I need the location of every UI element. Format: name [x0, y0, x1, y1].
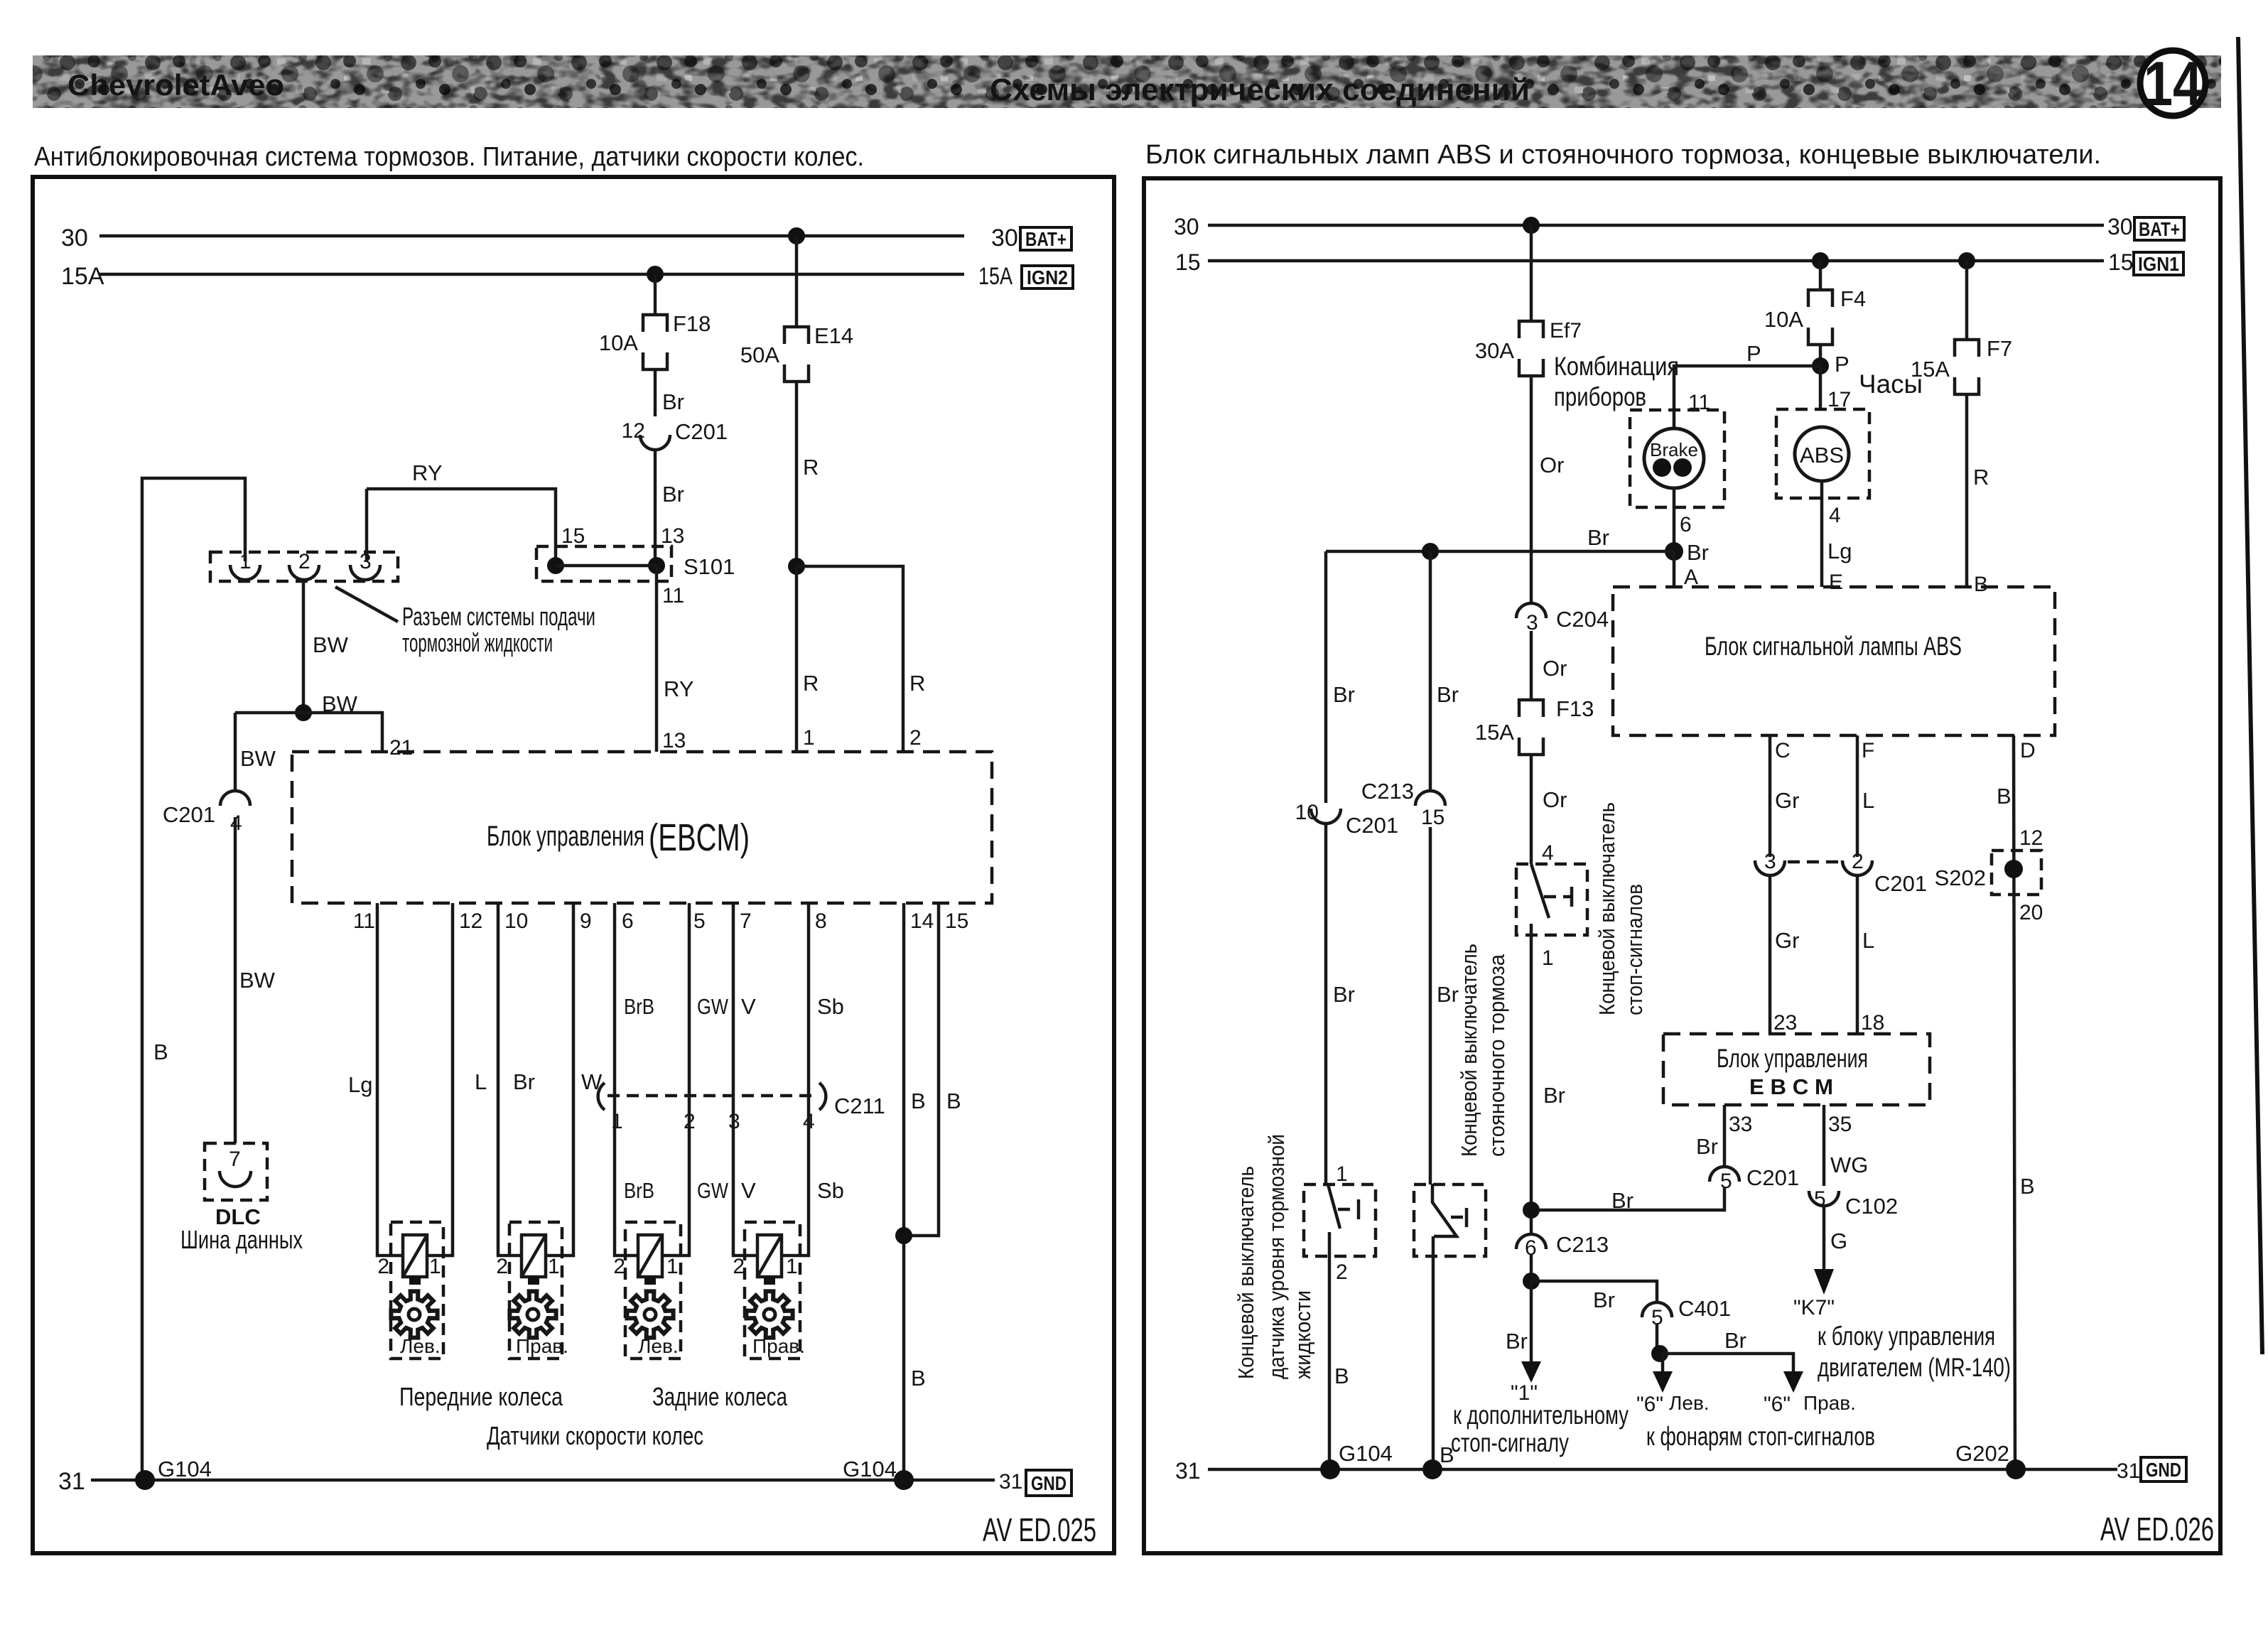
ground node G202 — [2006, 1459, 2026, 1479]
svg-text:Концевой выключатель: Концевой выключатель — [1233, 1166, 1258, 1379]
ground node left B — [1320, 1459, 1340, 1479]
front-left sensor element — [403, 1235, 427, 1285]
wire C201 to S101 — [654, 450, 657, 566]
node S202 — [2004, 860, 2023, 878]
svg-text:Br: Br — [1506, 1329, 1528, 1354]
svg-text:Концевой выключатель: Концевой выключатель — [1457, 944, 1481, 1157]
svg-text:C201: C201 — [1746, 1165, 1799, 1190]
wire clock down — [1820, 481, 1824, 587]
ABS warning lamp — [1795, 427, 1849, 481]
svg-text:BW: BW — [240, 746, 276, 771]
svg-text:Блок управления: Блок управления — [487, 821, 644, 852]
svg-text:12: 12 — [2019, 826, 2043, 850]
svg-text:"6": "6" — [1764, 1393, 1791, 1416]
node on bus 15A — [647, 266, 664, 283]
wire bus15 to fuse F7 — [1965, 261, 1969, 340]
ground node G104 left — [135, 1470, 155, 1490]
svg-text:F13: F13 — [1556, 696, 1594, 721]
wire brake lamp down — [1673, 488, 1676, 551]
parking brake switch contact — [1432, 1184, 1457, 1236]
wire pin9 W to front-right sensor — [546, 903, 573, 1256]
svg-text:14: 14 — [2144, 48, 2202, 119]
svg-text:1: 1 — [429, 1255, 441, 1278]
svg-text:к блоку управления: к блоку управления — [1818, 1322, 1995, 1351]
wire stop switch down to node — [1530, 924, 1533, 1234]
DLC dashed box — [205, 1143, 267, 1200]
svg-text:S101: S101 — [684, 554, 735, 579]
wire bus 15 — [1208, 259, 2104, 263]
svg-text:4: 4 — [1542, 841, 1554, 865]
svg-text:15A: 15A — [1475, 720, 1514, 745]
svg-text:1: 1 — [1336, 1162, 1348, 1186]
fuse F7 — [1955, 340, 1979, 357]
wire F4 down to P node — [1819, 345, 1822, 366]
svg-text:(EBCM): (EBCM) — [649, 816, 750, 859]
svg-text:6: 6 — [1680, 513, 1692, 536]
svg-text:7: 7 — [229, 1148, 241, 1171]
connector 5 C102 — [1809, 1191, 1839, 1206]
svg-text:2: 2 — [298, 550, 310, 573]
wire bus30 to fuse E14 — [795, 236, 799, 327]
svg-text:Передние колеса: Передние колеса — [399, 1382, 563, 1411]
svg-text:2: 2 — [909, 726, 922, 750]
svg-text:R: R — [1973, 465, 1989, 490]
svg-text:Е В С М: Е В С М — [1749, 1074, 1833, 1099]
svg-text:L: L — [1862, 928, 1874, 953]
wire node to ABS block pin A — [1673, 551, 1676, 587]
svg-text:Лев.: Лев. — [1669, 1392, 1710, 1414]
svg-text:1: 1 — [666, 1255, 679, 1278]
splice S101 dashed box — [536, 546, 671, 581]
wire pin11 Lg to front-left sensor — [377, 903, 403, 1256]
svg-text:5: 5 — [693, 909, 706, 933]
svg-text:S202: S202 — [1935, 865, 1986, 890]
svg-text:C401: C401 — [1678, 1296, 1731, 1321]
svg-text:2: 2 — [733, 1255, 745, 1278]
left Br wire from node down to C201-10 — [1324, 551, 1328, 803]
svg-text:11: 11 — [353, 909, 375, 933]
svg-text:21: 21 — [389, 736, 413, 760]
svg-text:WG: WG — [1830, 1152, 1868, 1177]
wire bus 30 — [99, 234, 964, 238]
svg-text:тормозной жидкости: тормозной жидкости — [402, 628, 553, 657]
svg-text:35: 35 — [1828, 1113, 1852, 1136]
wire C201-3 Gr to EBCM 23 — [1768, 875, 1772, 1034]
svg-text:F4: F4 — [1840, 286, 1866, 311]
svg-text:Датчики скорости колес: Датчики скорости колес — [487, 1421, 703, 1450]
connector pin 2 — [289, 565, 319, 580]
wire C211-2 GW to rear-left sensor — [662, 1096, 689, 1256]
svg-text:GND: GND — [1031, 1472, 1066, 1494]
svg-text:30: 30 — [2107, 214, 2133, 239]
svg-text:к дополнительному: к дополнительному — [1453, 1400, 1629, 1430]
svg-text:31: 31 — [2117, 1459, 2140, 1483]
svg-text:23: 23 — [1773, 1011, 1797, 1035]
wire P node to clock — [1819, 366, 1822, 409]
wire C211-1 BrB to rear-left sensor — [615, 1096, 638, 1256]
svg-text:Br: Br — [662, 482, 684, 507]
svg-text:50A: 50A — [740, 342, 779, 367]
svg-text:Br: Br — [1333, 682, 1355, 707]
svg-text:B: B — [1997, 784, 2011, 809]
svg-text:BrB: BrB — [624, 994, 654, 1019]
wire pin10 Br to front-right sensor — [498, 903, 522, 1256]
wire F13 down to stop switch — [1530, 755, 1533, 864]
wire BW left branch down to C201-4 — [234, 713, 237, 790]
node Br mid — [1422, 543, 1439, 560]
svg-text:ChevroletAveo: ChevroletAveo — [67, 68, 284, 102]
svg-text:Прав.: Прав. — [1803, 1392, 1856, 1414]
front-left gear — [391, 1291, 437, 1337]
wire pin8 Sb to C211-4 — [807, 903, 811, 1096]
wire fluid switch down B to ground — [1328, 1232, 1332, 1469]
arrow to right stop lamp — [1783, 1371, 1803, 1393]
label callout line — [335, 587, 398, 622]
svg-text:3: 3 — [1764, 850, 1776, 873]
brake lamp dashed box — [1630, 410, 1724, 507]
svg-text:"6": "6" — [1636, 1393, 1663, 1416]
BAT+ terminal box — [1020, 227, 1071, 250]
rear-left gear — [627, 1291, 673, 1337]
ABS signal lamp block dashed box — [1613, 587, 2055, 735]
svg-text:Br: Br — [1687, 540, 1709, 565]
wire pin1 loop to left side down — [142, 478, 245, 1480]
left panel frame — [33, 177, 1114, 1553]
svg-text:B: B — [1334, 1364, 1349, 1388]
wire R to EBCM pin 1 — [795, 566, 799, 752]
svg-text:Прав.: Прав. — [752, 1335, 805, 1357]
node B join — [895, 1227, 912, 1244]
svg-text:C204: C204 — [1556, 607, 1609, 632]
wire C211-4 Sb to rear-right sensor — [782, 1096, 809, 1256]
svg-text:9: 9 — [580, 909, 592, 933]
svg-text:12: 12 — [459, 909, 482, 933]
GND terminal box — [2141, 1457, 2186, 1481]
svg-text:Концевой выключатель: Концевой выключатель — [1594, 802, 1619, 1015]
wire F7 down R — [1965, 394, 1969, 587]
wire parking switch down B to ground — [1432, 1236, 1435, 1469]
svg-text:D: D — [2020, 739, 2036, 762]
svg-text:Br: Br — [1593, 1287, 1615, 1312]
svg-text:5: 5 — [1720, 1170, 1732, 1193]
node R branch — [788, 558, 805, 575]
svg-text:30A: 30A — [1475, 338, 1514, 363]
wire pin C Gr to C201-3 — [1768, 735, 1772, 857]
rear-right sensor element — [757, 1235, 782, 1285]
svg-text:Br: Br — [1696, 1134, 1718, 1159]
stop signal switch dashed box — [1516, 864, 1587, 935]
svg-text:F18: F18 — [673, 311, 711, 336]
svg-text:Комбинация: Комбинация — [1554, 352, 1679, 381]
wire C213-15 down to parking switch — [1429, 827, 1432, 1184]
svg-text:6: 6 — [1525, 1236, 1537, 1260]
svg-text:B: B — [911, 1366, 926, 1391]
svg-text:AV ED.026: AV ED.026 — [2100, 1511, 2214, 1548]
arrow to additional stop light — [1521, 1361, 1541, 1383]
fuse F4 — [1808, 290, 1832, 307]
wire Ef7 down Or — [1530, 376, 1533, 600]
front-left wheel sensor box — [391, 1222, 443, 1359]
GND terminal box — [1026, 1470, 1071, 1496]
svg-text:B: B — [911, 1089, 926, 1113]
svg-text:4: 4 — [1829, 504, 1841, 527]
connector 6 C213 — [1516, 1234, 1546, 1249]
svg-text:Sb: Sb — [817, 994, 844, 1019]
wire C201-10 down to fluid switch — [1324, 824, 1328, 1184]
svg-text:15: 15 — [561, 524, 585, 548]
brake warning lamp — [1644, 428, 1704, 488]
svg-text:Br: Br — [1543, 1083, 1565, 1108]
svg-text:E: E — [1829, 571, 1843, 594]
svg-text:C211: C211 — [834, 1094, 885, 1118]
svg-text:31: 31 — [1175, 1458, 1201, 1484]
svg-text:15: 15 — [1175, 249, 1201, 275]
svg-text:B: B — [946, 1089, 961, 1113]
svg-text:B: B — [153, 1040, 168, 1064]
svg-text:12: 12 — [622, 419, 645, 443]
svg-text:C201: C201 — [163, 802, 215, 827]
svg-text:G: G — [1830, 1229, 1847, 1253]
svg-text:R: R — [909, 671, 925, 696]
svg-text:7: 7 — [740, 909, 752, 933]
svg-text:L: L — [1862, 788, 1874, 813]
svg-text:15A: 15A — [978, 263, 1012, 290]
right panel frame — [1144, 178, 2220, 1553]
svg-text:Br: Br — [1437, 982, 1459, 1007]
C211 left paren — [598, 1083, 605, 1110]
svg-text:G104: G104 — [1339, 1441, 1393, 1466]
wire C201-4 down to DLC — [234, 817, 237, 1143]
svg-text:C: C — [1775, 739, 1791, 762]
arrow to left stop lamp — [1661, 1354, 1665, 1374]
svg-text:1: 1 — [1542, 946, 1554, 970]
wire bus15 to fuse F4 — [1819, 261, 1822, 290]
svg-text:RY: RY — [664, 676, 694, 701]
svg-text:Блок управления: Блок управления — [1717, 1044, 1868, 1073]
svg-text:V: V — [741, 994, 756, 1019]
svg-text:Sb: Sb — [817, 1178, 844, 1203]
svg-text:GND: GND — [2146, 1459, 2181, 1481]
svg-text:к фонарям стоп-сигналов: к фонарям стоп-сигналов — [1646, 1422, 1875, 1451]
connector pin 3 — [350, 565, 380, 580]
svg-text:33: 33 — [1729, 1113, 1752, 1136]
wire bus 30 — [1208, 224, 2104, 227]
svg-text:Brake: Brake — [1650, 439, 1698, 460]
svg-text:Шина данных: Шина данных — [180, 1225, 303, 1254]
connector pin 1 — [230, 565, 260, 580]
brake fluid connector dashed box — [210, 552, 398, 581]
svg-text:GW: GW — [697, 994, 729, 1019]
wire C401 down to node — [1656, 1323, 1659, 1354]
svg-text:Прав.: Прав. — [516, 1335, 568, 1357]
page number circle 14 — [2140, 50, 2205, 116]
svg-text:18: 18 — [1861, 1011, 1884, 1035]
svg-text:15: 15 — [2108, 249, 2134, 275]
IGN1 terminal box — [2134, 252, 2183, 275]
svg-text:13: 13 — [661, 524, 684, 548]
svg-text:B: B — [2020, 1174, 2035, 1199]
ground node G104 right — [894, 1470, 914, 1490]
svg-text:1: 1 — [548, 1255, 560, 1278]
svg-text:13: 13 — [662, 729, 686, 752]
node P — [1812, 357, 1829, 374]
wire pin2 down to BW node — [302, 580, 306, 713]
svg-text:2: 2 — [496, 1255, 508, 1278]
connector 3 C204 — [1516, 603, 1546, 618]
svg-text:C201: C201 — [1346, 813, 1398, 838]
connector 4 C201 — [220, 791, 250, 806]
svg-text:Or: Or — [1540, 453, 1564, 477]
stop signal switch contact — [1531, 864, 1549, 918]
svg-text:IGN1: IGN1 — [2138, 253, 2179, 275]
wire pin F L to C201-2 — [1856, 735, 1859, 857]
connector C211 dashed line — [607, 1094, 817, 1098]
svg-text:Блок сигнальной лампы ABS: Блок сигнальной лампы ABS — [1705, 632, 1962, 661]
svg-text:E14: E14 — [814, 323, 853, 348]
svg-text:Задние колеса: Задние колеса — [652, 1382, 788, 1411]
svg-text:Gr: Gr — [1775, 788, 1799, 813]
svg-text:P: P — [1746, 341, 1761, 366]
wire R branch to pin 2 — [796, 566, 903, 752]
wire bus 15A — [99, 273, 964, 276]
BAT+ terminal box — [2134, 217, 2184, 240]
svg-text:G202: G202 — [1955, 1441, 2009, 1466]
svg-text:Br: Br — [662, 389, 684, 414]
svg-text:30: 30 — [991, 225, 1018, 252]
wire to right stop lamp — [1660, 1354, 1793, 1374]
connector 12 C201 — [640, 435, 670, 450]
svg-text:2: 2 — [377, 1255, 389, 1278]
wire bus30 to fuse Ef7 — [1530, 225, 1533, 321]
fuse Ef7 — [1519, 321, 1543, 338]
svg-text:C201: C201 — [1874, 871, 1927, 896]
wire Or crossing to C204 — [1530, 600, 1533, 603]
wire pin6 BrB to C211-1 — [613, 903, 617, 1096]
svg-text:стояночного тормоза: стояночного тормоза — [1484, 954, 1509, 1157]
wire C211-3 V to rear-right sensor — [733, 1096, 757, 1256]
svg-text:Lg: Lg — [1827, 539, 1852, 563]
wire BW branch left/right — [235, 713, 382, 752]
wire P to brake lamp — [1674, 366, 1820, 428]
svg-text:Лев.: Лев. — [400, 1335, 441, 1357]
wire C204 to F13 — [1530, 631, 1533, 700]
svg-text:B: B — [1974, 573, 1988, 596]
EBCM dashed box — [292, 752, 992, 903]
svg-text:приборов: приборов — [1554, 382, 1646, 411]
connector 5 C201 — [1710, 1167, 1739, 1182]
svg-text:Br: Br — [1333, 982, 1355, 1007]
svg-text:6: 6 — [622, 909, 634, 933]
front-right wheel sensor box — [509, 1222, 562, 1359]
svg-text:G104: G104 — [843, 1457, 897, 1481]
header band — [33, 55, 2221, 108]
wire pin5 GW to C211-2 — [688, 903, 691, 1096]
svg-text:стоп-сигналу: стоп-сигналу — [1451, 1428, 1569, 1457]
svg-text:10A: 10A — [599, 330, 638, 355]
wire pin15 B joins pin14 — [904, 903, 939, 1236]
wire pin12 L to front-left sensor — [427, 903, 453, 1256]
svg-text:IGN2: IGN2 — [1027, 266, 1068, 288]
svg-text:C201: C201 — [675, 419, 728, 444]
wire S101 to EBCM pin 13 — [655, 566, 659, 752]
svg-text:31: 31 — [999, 1470, 1022, 1494]
node bus15 to F4 — [1812, 252, 1829, 269]
svg-text:2: 2 — [1336, 1260, 1348, 1284]
svg-text:15: 15 — [1421, 806, 1444, 829]
svg-text:Br: Br — [513, 1069, 535, 1094]
rear-left sensor element — [638, 1235, 662, 1285]
front-right gear — [509, 1291, 556, 1337]
svg-text:Антиблокировочная система торм: Антиблокировочная система тормозов. Пита… — [34, 142, 864, 172]
svg-text:15: 15 — [945, 909, 968, 933]
node bus15 to F7 — [1958, 252, 1975, 269]
svg-text:V: V — [741, 1178, 756, 1203]
svg-text:Br: Br — [1437, 682, 1459, 707]
node Br to C201-5 line — [1523, 1202, 1540, 1219]
svg-text:C213: C213 — [1556, 1232, 1609, 1257]
svg-text:ABS: ABS — [1800, 443, 1844, 468]
svg-text:датчика уровня тормозной: датчика уровня тормозной — [1264, 1134, 1289, 1379]
wire pin3 up to RY — [365, 489, 369, 561]
svg-text:Gr: Gr — [1775, 928, 1799, 953]
svg-text:2: 2 — [1852, 850, 1864, 873]
fuse F18 — [643, 315, 667, 332]
svg-text:F7: F7 — [1987, 336, 2012, 361]
svg-text:30: 30 — [61, 225, 88, 252]
svg-text:1: 1 — [611, 1110, 623, 1133]
svg-text:C102: C102 — [1845, 1194, 1898, 1219]
arrow to engine ECU — [1814, 1269, 1834, 1295]
svg-text:Br: Br — [1587, 525, 1609, 550]
connector C201 pins 3/2 — [1755, 860, 1785, 875]
svg-text:двигателем (MR-140): двигателем (MR-140) — [1818, 1353, 2011, 1382]
svg-text:Or: Or — [1543, 787, 1567, 812]
splice S202 dashed box — [1992, 851, 2041, 895]
svg-text:1: 1 — [786, 1255, 798, 1278]
svg-text:G104: G104 — [158, 1457, 212, 1481]
svg-text:Or: Or — [1543, 656, 1567, 681]
svg-text:Схемы электрических соединений: Схемы электрических соединений — [990, 72, 1530, 107]
IGN2 terminal box — [1022, 266, 1073, 288]
node S101 right — [648, 557, 665, 574]
ground node parking B — [1422, 1459, 1442, 1479]
svg-text:R: R — [803, 455, 819, 480]
wire pin33 Br to C201-5 — [1723, 1105, 1727, 1167]
svg-text:"K7": "K7" — [1793, 1296, 1835, 1319]
svg-text:L: L — [475, 1069, 487, 1094]
svg-text:15A: 15A — [1911, 357, 1950, 382]
EBCM control unit dashed box — [1663, 1034, 1930, 1105]
svg-text:11: 11 — [662, 584, 684, 608]
wire C201-5 down to Br line — [1531, 1187, 1724, 1210]
svg-text:P: P — [1835, 352, 1849, 377]
wire E14 down to node — [795, 382, 799, 566]
wire 15A to fuse F18 — [654, 274, 657, 315]
svg-text:BAT+: BAT+ — [2139, 218, 2180, 240]
svg-text:жидкости: жидкости — [1290, 1290, 1315, 1379]
svg-text:F: F — [1862, 739, 1874, 762]
wire stop signal down arrow — [1530, 1281, 1533, 1364]
wire C102-5 down G with arrow — [1822, 1206, 1826, 1272]
wire S101 internal — [556, 564, 657, 568]
svg-text:2: 2 — [613, 1255, 625, 1278]
svg-text:Br: Br — [1611, 1188, 1633, 1213]
svg-text:Лев.: Лев. — [638, 1335, 679, 1357]
wire pin7 V to C211-3 — [732, 903, 735, 1096]
svg-text:1: 1 — [803, 726, 815, 750]
node stop lamps — [1651, 1345, 1668, 1362]
wire RY horizontal into S101 — [367, 489, 556, 566]
